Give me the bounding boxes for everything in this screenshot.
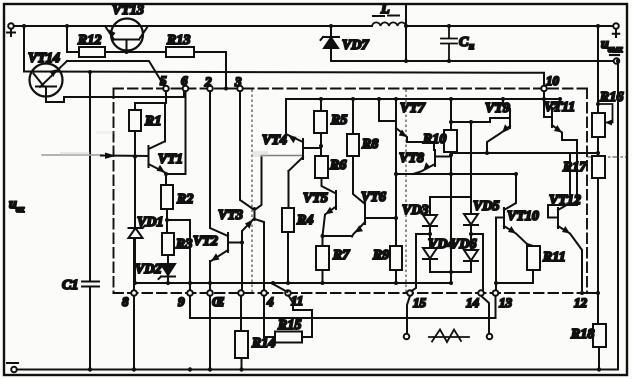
- diode VD3: [402, 203, 437, 234]
- node VD5 VD6: [469, 232, 483, 290]
- pin 2: [204, 74, 213, 91]
- resistor R8: [347, 134, 378, 204]
- svg-text:8: 8: [122, 294, 129, 309]
- svg-text:C1: C1: [62, 278, 78, 293]
- node bus R8: [351, 97, 355, 134]
- svg-text:R8: R8: [361, 137, 378, 152]
- pin 11: [285, 290, 303, 308]
- wire pin14 to load: [481, 296, 489, 333]
- svg-text:VT6: VT6: [361, 190, 386, 205]
- pin 6: [181, 73, 188, 91]
- node R16 top: [596, 24, 600, 113]
- node bus pin10: [542, 97, 546, 101]
- svg-text:10: 10: [546, 73, 560, 88]
- node minus to ground rail: [616, 59, 620, 370]
- resistor R11: [497, 244, 566, 283]
- resistor R5: [314, 111, 347, 133]
- node R2 R3: [165, 218, 190, 233]
- pin unlabeled: [238, 290, 244, 296]
- wire C1 branch: [89, 72, 91, 281]
- svg-text:R6: R6: [329, 158, 346, 173]
- svg-text:VD6: VD6: [450, 237, 476, 252]
- wire R15 to pin11: [289, 296, 313, 338]
- svg-text:R15: R15: [277, 318, 301, 333]
- node bus VT2e: [208, 281, 212, 285]
- node VT6 base R9: [394, 216, 398, 220]
- divider dotted right: [405, 90, 407, 292]
- wire VT10 base pin13: [495, 218, 497, 291]
- svg-text:9: 9: [178, 294, 185, 309]
- svg-text:VT13: VT13: [112, 3, 144, 18]
- node drive R10: [449, 172, 453, 176]
- svg-text:12: 12: [574, 295, 588, 310]
- ground rail bottom: [17, 369, 618, 371]
- pin 10: [541, 73, 559, 91]
- resistor R9: [372, 218, 402, 283]
- svg-text:2: 2: [204, 74, 212, 89]
- node bus R10: [449, 97, 453, 130]
- node bus R5: [319, 97, 323, 111]
- resistor R1: [129, 110, 161, 131]
- svg-text:R1: R1: [144, 114, 161, 129]
- svg-text:14: 14: [466, 295, 480, 310]
- node VT1 base R1: [133, 155, 137, 159]
- transistor VT11: [544, 97, 577, 218]
- node rail-left corner: [22, 24, 26, 72]
- node rail R14: [239, 367, 243, 371]
- wire diode tops: [430, 120, 473, 215]
- diode VD7: [321, 37, 370, 61]
- wire R13 to pin3: [194, 52, 226, 89]
- ground bus internal: [134, 282, 451, 284]
- node rail pin9: [188, 367, 192, 371]
- wire pin4 to R15: [264, 296, 275, 337]
- wire pin9 internal: [189, 220, 191, 290]
- node VT9 base link: [449, 118, 510, 124]
- node rail pin1E: [208, 367, 212, 371]
- svg-text:VD7: VD7: [342, 38, 369, 53]
- wire R14 stem: [240, 296, 242, 331]
- svg-text:VT3: VT3: [218, 208, 243, 223]
- transistor VT7: [394, 97, 434, 150]
- svg-text:R14: R14: [251, 336, 275, 351]
- wire output drive line: [396, 173, 516, 175]
- svg-text:вых: вых: [608, 44, 623, 54]
- svg-text:5: 5: [160, 73, 167, 88]
- svg-text:VT5: VT5: [303, 191, 328, 206]
- resistor R15: [275, 318, 302, 343]
- node bus R4: [286, 281, 290, 285]
- terminal load left: [404, 334, 410, 340]
- load sawtooth symbol: [429, 330, 469, 343]
- node rail pin8: [132, 367, 136, 371]
- diode VD2: [135, 262, 175, 283]
- wire diode chain stem: [450, 174, 452, 272]
- node VT2 VT3: [240, 241, 244, 245]
- node R12 top: [65, 24, 79, 52]
- resistor R16: [592, 90, 623, 153]
- supply bus internal: [286, 98, 560, 100]
- resistor R6: [315, 156, 346, 194]
- inductor L: [372, 2, 406, 26]
- svg-text:C: C: [459, 35, 469, 50]
- wire bias line A: [451, 152, 598, 154]
- diode VD1: [129, 215, 164, 283]
- svg-text:15: 15: [413, 295, 427, 310]
- wire input line faint: [42, 154, 101, 156]
- svg-text:R17: R17: [562, 160, 587, 175]
- transistor VT3: [218, 91, 264, 290]
- transistor VT8: [399, 150, 451, 174]
- wire input arrow: [101, 153, 148, 159]
- terminal load right: [487, 334, 493, 340]
- node VD7 top: [329, 24, 333, 38]
- wire VT3 to VT4 base faint: [262, 155, 304, 157]
- terminal bottom-left: [7, 363, 18, 372]
- pin 8: [122, 290, 137, 309]
- svg-text:R12: R12: [77, 33, 101, 48]
- node bus pin9: [188, 281, 192, 285]
- node rail C1: [88, 367, 92, 371]
- svg-text:VD5: VD5: [473, 199, 499, 214]
- pin 4: [261, 290, 274, 309]
- wire R1 bottom: [134, 131, 136, 228]
- resistor R4: [282, 208, 313, 283]
- node VT5 VT6 R7: [321, 234, 353, 246]
- svg-text:VT12: VT12: [549, 193, 581, 208]
- resistor R3: [162, 233, 192, 264]
- resistor R7: [316, 246, 350, 283]
- svg-text:VT14: VT14: [28, 51, 60, 66]
- pin 1E: [207, 290, 224, 309]
- pin 5: [160, 73, 169, 91]
- svg-text:вх: вх: [16, 204, 25, 214]
- terminal output minus: [610, 55, 619, 64]
- node emitter line left: [394, 172, 398, 176]
- wire pin8: [133, 238, 135, 370]
- wire VT4 to R4: [288, 171, 290, 208]
- svg-text:R18: R18: [570, 327, 594, 342]
- wire top rail: [14, 25, 614, 27]
- transistor VT5: [303, 191, 336, 236]
- svg-text:VT9: VT9: [485, 101, 510, 116]
- node bus VD2: [166, 281, 170, 285]
- svg-text:VT11: VT11: [544, 100, 575, 115]
- divider dash-dot stub: [588, 156, 626, 158]
- smudge artifacts: [60, 131, 268, 157]
- pin 12: [574, 291, 598, 310]
- svg-text:VD1: VD1: [137, 215, 163, 230]
- pin 9: [178, 290, 193, 309]
- transistor VT14: [28, 51, 67, 97]
- node drive VT10: [504, 172, 518, 210]
- node bus R7: [321, 281, 325, 285]
- wire pin5 to R1/VT1: [135, 91, 166, 110]
- label u_vyh: [601, 37, 623, 54]
- svg-text:VT4: VT4: [262, 133, 287, 148]
- terminal output plus: [613, 23, 619, 37]
- pin 13: [493, 290, 513, 310]
- resistor R18: [570, 324, 606, 370]
- node pin3 wire: [224, 87, 237, 91]
- wire feedback pin9 to pin13: [190, 296, 496, 318]
- node pin13 R11: [494, 281, 498, 285]
- diode VD5: [464, 197, 499, 234]
- svg-text:R9: R9: [372, 248, 389, 263]
- svg-text:VD3: VD3: [402, 203, 428, 218]
- wire minus rail: [331, 60, 614, 62]
- pin 3: [234, 74, 243, 91]
- svg-text:VT8: VT8: [399, 151, 424, 166]
- transistor VT9: [485, 97, 510, 153]
- resistor R10: [422, 130, 457, 174]
- node rail R18: [597, 367, 601, 371]
- resistor R2: [161, 185, 193, 220]
- transistor VT12: [549, 153, 582, 290]
- svg-text:R16: R16: [599, 90, 623, 105]
- svg-text:L: L: [380, 2, 390, 17]
- transistor VT4: [262, 99, 321, 171]
- svg-text:4: 4: [266, 294, 274, 309]
- node VT1 emitter: [164, 172, 186, 185]
- node bus pin11 link: [271, 281, 288, 292]
- node bus VT7 base: [377, 97, 395, 121]
- node drive VT9: [485, 151, 489, 155]
- capacitor C1: [62, 278, 99, 370]
- diode VD4: [423, 234, 454, 272]
- wire pin6 internal: [185, 91, 187, 174]
- transistor VT13: [106, 3, 147, 52]
- svg-text:6: 6: [181, 73, 188, 88]
- wire bridge bottom: [430, 270, 471, 285]
- resistor R13: [166, 33, 194, 57]
- svg-text:R5: R5: [330, 113, 347, 128]
- resistor R17: [562, 153, 605, 293]
- svg-text:R11: R11: [542, 250, 566, 265]
- resistor R14: [235, 331, 275, 370]
- svg-text:R4: R4: [296, 213, 313, 228]
- label u_vh: [9, 197, 25, 214]
- node L output down: [404, 5, 408, 63]
- wire VT14 bottom to pin6: [46, 87, 184, 102]
- wire pin2 internal: [210, 91, 228, 236]
- input terminal top-left: [7, 23, 15, 36]
- divider dotted left: [251, 90, 253, 292]
- svg-text:R7: R7: [332, 248, 350, 263]
- node VD3 VD4: [412, 232, 433, 291]
- wire VT7 emitter chain down: [395, 130, 397, 246]
- node C1 top: [88, 70, 92, 74]
- IC dashed box: [114, 89, 588, 294]
- node line A R16: [596, 151, 600, 155]
- resistor R12: [77, 33, 105, 57]
- node bus VD1: [133, 281, 137, 285]
- node VT13 emitter: [125, 50, 129, 54]
- svg-text:R13: R13: [166, 33, 190, 48]
- wire R12-R13: [105, 51, 166, 53]
- svg-text:Œ: Œ: [212, 294, 224, 309]
- pin 14: [466, 290, 484, 310]
- node R5 R6 VT4 base: [319, 133, 323, 156]
- node bus R9: [394, 281, 398, 285]
- capacitor Cn: [441, 24, 474, 63]
- svg-text:VD2: VD2: [135, 262, 161, 277]
- svg-text:н: н: [469, 41, 474, 51]
- wire VT14 emitter to pin5: [67, 61, 165, 87]
- transistor VT1: [149, 103, 183, 173]
- wire bias line to pin10: [24, 72, 544, 86]
- svg-text:3: 3: [234, 74, 242, 89]
- node R10 bottom: [449, 153, 453, 157]
- wire pin15 to load: [407, 296, 410, 333]
- svg-text:VT2: VT2: [193, 234, 218, 249]
- transistor VT6: [352, 190, 396, 237]
- pin 15: [407, 290, 426, 310]
- svg-text:R10: R10: [422, 132, 446, 147]
- transistor VT10: [496, 208, 539, 244]
- wire pin10 internal: [543, 91, 545, 117]
- svg-text:R2: R2: [176, 192, 193, 207]
- node pin12 R18: [596, 291, 600, 324]
- diode VD6: [450, 234, 478, 272]
- svg-text:VT10: VT10: [507, 209, 539, 224]
- svg-text:13: 13: [499, 295, 513, 310]
- svg-text:VT1: VT1: [158, 152, 183, 167]
- svg-text:VT7: VT7: [400, 101, 426, 116]
- transistor VT2: [193, 233, 242, 370]
